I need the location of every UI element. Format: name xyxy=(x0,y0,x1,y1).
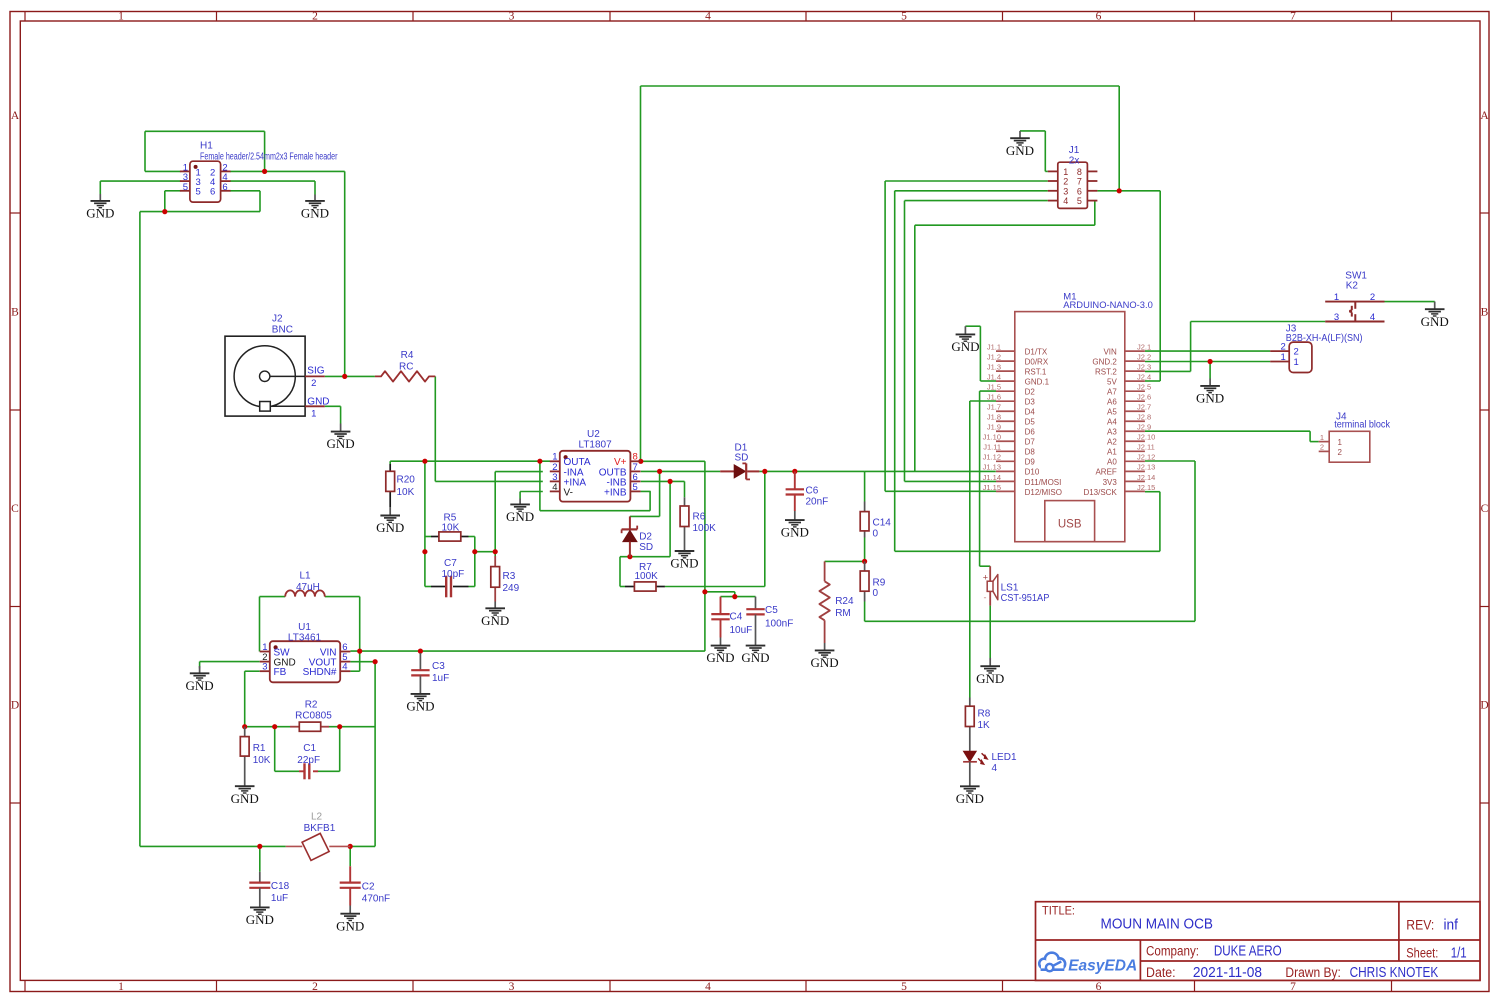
junction at 474.8,551.7 xyxy=(472,549,477,554)
svg-text:3: 3 xyxy=(1063,186,1068,196)
svg-text:C14: C14 xyxy=(873,517,892,528)
svg-text:R3: R3 xyxy=(503,571,516,582)
svg-text:AREF: AREF xyxy=(1095,468,1116,477)
ground GND C5 xyxy=(741,638,769,666)
wire L2 right to VOUT vertical xyxy=(350,662,375,847)
resistor R1 xyxy=(240,727,271,777)
capacitor C4 xyxy=(711,597,752,638)
wire J1 pin2 to D12 xyxy=(885,181,1048,491)
svg-text:5: 5 xyxy=(1077,196,1082,206)
svg-text:Drawn By:: Drawn By: xyxy=(1285,965,1341,980)
op-amp U2 LT1807 xyxy=(550,429,641,502)
svg-text:47uH: 47uH xyxy=(296,582,320,593)
resistor R6 xyxy=(680,497,716,543)
svg-text:2: 2 xyxy=(1320,443,1324,452)
svg-text:5: 5 xyxy=(633,482,638,493)
svg-text:GND: GND xyxy=(186,678,214,693)
svg-text:GND: GND xyxy=(327,436,355,451)
junction at 274.7,726.7 xyxy=(272,724,277,729)
svg-text:A2: A2 xyxy=(1107,438,1117,447)
ground GND J2 xyxy=(327,424,355,452)
svg-text:RST.2: RST.2 xyxy=(1095,368,1117,377)
svg-text:1: 1 xyxy=(118,981,124,993)
svg-text:249: 249 xyxy=(503,583,520,594)
wire SW1 pin2 to GND xyxy=(1385,301,1435,304)
wire LS1 minus wire xyxy=(989,606,991,658)
svg-text:EasyEDA: EasyEDA xyxy=(1068,958,1137,975)
junction at 264.6,171.4 xyxy=(262,169,267,174)
capacitor C5 xyxy=(746,597,793,638)
wire R4 to +INA xyxy=(435,376,543,481)
svg-text:R1: R1 xyxy=(253,743,266,754)
svg-text:LT1807: LT1807 xyxy=(579,439,613,450)
svg-text:J1.15: J1.15 xyxy=(983,483,1001,492)
svg-text:D4: D4 xyxy=(1025,408,1036,417)
svg-text:GND: GND xyxy=(406,699,434,714)
svg-text:6: 6 xyxy=(1077,186,1082,196)
svg-text:2: 2 xyxy=(312,981,318,993)
svg-text:R9: R9 xyxy=(873,578,886,589)
wire D2 anode row xyxy=(620,557,670,587)
svg-text:J1.13: J1.13 xyxy=(983,463,1001,472)
regulator U1 LT3461 xyxy=(260,622,351,683)
diode D2 xyxy=(622,516,654,556)
svg-text:A4: A4 xyxy=(1107,418,1117,427)
svg-text:RC: RC xyxy=(399,362,413,373)
svg-text:J2.10: J2.10 xyxy=(1137,433,1155,442)
svg-text:B: B xyxy=(11,307,19,319)
svg-text:ARDUINO-NANO-3.0: ARDUINO-NANO-3.0 xyxy=(1063,300,1153,311)
svg-text:VIN: VIN xyxy=(1103,348,1117,357)
capacitor C14 xyxy=(860,502,891,540)
ground GND J1 xyxy=(1006,131,1034,158)
ground GND C3 xyxy=(406,676,434,714)
wire J1 GND wire xyxy=(1020,131,1048,172)
junction at 629.9,556.7 xyxy=(627,554,632,559)
svg-text:L2: L2 xyxy=(311,812,323,823)
svg-text:7: 7 xyxy=(1290,11,1296,23)
svg-text:4: 4 xyxy=(1370,312,1375,323)
wire RST2 to SW1 xyxy=(1145,322,1325,372)
wire C14 vertical xyxy=(864,471,866,561)
wire J1 pin6 to 5V xyxy=(1097,191,1160,381)
svg-text:C6: C6 xyxy=(806,485,819,496)
svg-text:A3: A3 xyxy=(1107,428,1117,437)
junction at 640.8,461.3 xyxy=(638,459,643,464)
ground GND M1 xyxy=(951,326,979,354)
svg-text:GND: GND xyxy=(481,613,509,628)
resistor R20 xyxy=(386,464,415,507)
svg-text:+: + xyxy=(983,572,988,582)
wire R5 C7 right vertical xyxy=(469,537,496,587)
svg-text:GND: GND xyxy=(376,520,404,535)
svg-text:1: 1 xyxy=(1338,438,1343,447)
svg-text:J1.7: J1.7 xyxy=(987,403,1001,412)
junction at 420.4,651.1 xyxy=(418,649,423,654)
svg-text:A0: A0 xyxy=(1107,458,1117,467)
svg-text:4: 4 xyxy=(705,981,711,993)
junction at 259.8,846.4 xyxy=(257,844,262,849)
svg-text:GND: GND xyxy=(336,918,364,933)
svg-text:1: 1 xyxy=(118,11,124,23)
svg-text:J1.5: J1.5 xyxy=(987,383,1001,392)
svg-text:6: 6 xyxy=(222,182,227,193)
svg-text:U1: U1 xyxy=(298,622,311,633)
svg-text:4: 4 xyxy=(992,763,998,774)
svg-text:terminal block: terminal block xyxy=(1334,420,1391,431)
svg-text:2: 2 xyxy=(311,378,316,389)
svg-text:GND: GND xyxy=(670,556,698,571)
wire R9 bottom to A0 xyxy=(865,461,1195,621)
svg-text:TITLE:: TITLE: xyxy=(1042,904,1075,918)
svg-text:SD: SD xyxy=(639,542,653,553)
capacitor C2 xyxy=(340,866,390,905)
svg-text:C: C xyxy=(11,503,19,515)
svg-text:1: 1 xyxy=(1320,433,1324,442)
junction at 344.7,376.4 xyxy=(342,374,347,379)
svg-text:J1: J1 xyxy=(1069,145,1080,156)
connector H1 xyxy=(180,141,338,203)
wire H1 pin3 to GND xyxy=(100,181,180,194)
LED LED1 xyxy=(963,751,1017,774)
wire GND2 to J3 pin1 xyxy=(1145,362,1270,379)
wire R7 to D1 cathode xyxy=(665,471,765,586)
svg-text:GND: GND xyxy=(246,912,274,927)
svg-text:J1.10: J1.10 xyxy=(983,433,1001,442)
wire C2 branch xyxy=(349,846,351,866)
svg-text:1: 1 xyxy=(1281,352,1286,363)
speaker LS1 xyxy=(983,566,1050,605)
svg-text:CHRIS KNOTEK: CHRIS KNOTEK xyxy=(1350,964,1439,981)
wire U1 FB wire xyxy=(245,671,260,727)
wire -INB wire xyxy=(641,481,685,556)
resistor R9 xyxy=(860,561,886,601)
wire H1 pin5 xyxy=(165,191,181,212)
svg-text:0: 0 xyxy=(873,588,879,599)
junction at 734.8,596.6 xyxy=(732,594,737,599)
junction at 764.8,471.4 xyxy=(762,469,767,474)
svg-text:D8: D8 xyxy=(1025,448,1036,457)
svg-text:100nF: 100nF xyxy=(765,619,793,630)
wire R20 lead xyxy=(389,461,391,464)
svg-text:1uF: 1uF xyxy=(271,893,288,904)
junction at 375.1,661.7 xyxy=(373,659,378,664)
ground GND C18 xyxy=(246,889,274,927)
junction at 424.9,461.2 xyxy=(422,459,427,464)
svg-text:J2.9: J2.9 xyxy=(1137,423,1151,432)
ground GND LED1 xyxy=(956,763,984,806)
svg-text:10K: 10K xyxy=(253,755,271,766)
wire A3 to J4 xyxy=(1145,431,1319,441)
svg-text:J2: J2 xyxy=(272,313,283,324)
junction at 539.9,461.2 xyxy=(537,459,542,464)
svg-text:FB: FB xyxy=(274,667,287,678)
wire C3 branch xyxy=(419,651,421,653)
inductor L1 xyxy=(285,571,325,597)
svg-text:A7: A7 xyxy=(1107,388,1117,397)
svg-text:J1.9: J1.9 xyxy=(987,423,1001,432)
svg-text:J1.11: J1.11 xyxy=(983,443,1001,452)
wire D10 rail xyxy=(865,470,996,472)
resistor R7 xyxy=(625,562,665,591)
svg-text:1: 1 xyxy=(1063,167,1068,177)
svg-text:5V: 5V xyxy=(1107,378,1117,387)
wire C1 loop xyxy=(275,727,340,772)
wire BNC SIG to R4 xyxy=(325,375,375,377)
svg-text:R6: R6 xyxy=(693,511,706,522)
svg-text:GND: GND xyxy=(956,791,984,806)
svg-text:J2.7: J2.7 xyxy=(1137,403,1151,412)
svg-text:Female header/2.54mm2x3 Female: Female header/2.54mm2x3 Female header xyxy=(200,151,338,162)
svg-text:GND: GND xyxy=(1006,143,1034,158)
svg-text:USB: USB xyxy=(1058,519,1082,531)
wire C4 C5 jog xyxy=(705,592,756,597)
wire H1 pin1-pin2 loop xyxy=(145,131,265,171)
wire U1 GND wire xyxy=(200,662,260,669)
svg-text:C18: C18 xyxy=(271,881,290,892)
wire C18 branch xyxy=(259,846,261,871)
resistor R8 xyxy=(965,698,990,753)
wire H1 pin6 xyxy=(230,191,260,212)
svg-text:J2.11: J2.11 xyxy=(1137,443,1155,452)
svg-text:R4: R4 xyxy=(401,350,414,361)
wire left VOUT rail down xyxy=(140,212,286,847)
svg-text:J1.12: J1.12 xyxy=(983,453,1001,462)
svg-text:Sheet:: Sheet: xyxy=(1406,946,1438,961)
ground GND C4 xyxy=(706,638,734,666)
junction at 704.9,591.8 xyxy=(702,589,707,594)
svg-text:10uF: 10uF xyxy=(730,625,753,636)
svg-text:A1: A1 xyxy=(1107,448,1117,457)
svg-text:RM: RM xyxy=(835,608,851,619)
svg-text:J2.5: J2.5 xyxy=(1137,383,1151,392)
svg-text:D10: D10 xyxy=(1025,468,1040,477)
svg-text:C3: C3 xyxy=(432,661,445,672)
svg-text:J2.12: J2.12 xyxy=(1137,453,1155,462)
junction at 359.7,651.1 xyxy=(357,649,362,654)
svg-text:U2: U2 xyxy=(587,429,600,440)
svg-text:LT3461: LT3461 xyxy=(288,632,322,643)
junction at 1210.1,361.5 xyxy=(1208,359,1213,364)
connector J1 xyxy=(1048,145,1098,208)
svg-text:D: D xyxy=(1480,700,1488,712)
svg-text:SIG: SIG xyxy=(307,366,324,377)
resistor R2 xyxy=(290,699,332,731)
svg-text:R8: R8 xyxy=(978,709,991,720)
svg-text:GND: GND xyxy=(86,206,114,221)
svg-text:10pF: 10pF xyxy=(442,569,465,580)
svg-text:inf: inf xyxy=(1444,917,1459,934)
svg-text:2: 2 xyxy=(312,11,318,23)
svg-text:B: B xyxy=(1481,307,1489,319)
svg-text:R24: R24 xyxy=(835,596,854,607)
capacitor C6 xyxy=(786,471,829,511)
svg-text:J1.6: J1.6 xyxy=(987,393,1001,402)
svg-text:D0/RX: D0/RX xyxy=(1025,358,1049,367)
svg-text:SHDN#: SHDN# xyxy=(303,667,337,678)
svg-text:J2.14: J2.14 xyxy=(1137,473,1155,482)
MCU module M1 ARDUINO-NANO-3.0 xyxy=(983,292,1156,542)
wire J1 pin5 to D10 xyxy=(915,201,1095,472)
svg-text:J2.3: J2.3 xyxy=(1137,363,1151,372)
wire VIN rail xyxy=(350,650,705,652)
svg-text:D13/SCK: D13/SCK xyxy=(1083,488,1117,497)
junction at 495.2,551.7 xyxy=(493,549,498,554)
svg-text:SD: SD xyxy=(735,453,749,464)
svg-text:D1/TX: D1/TX xyxy=(1025,348,1048,357)
ground GND R1 xyxy=(231,777,259,806)
svg-text:1/1: 1/1 xyxy=(1451,945,1467,962)
svg-text:J2.4: J2.4 xyxy=(1137,373,1151,382)
svg-text:J2.13: J2.13 xyxy=(1137,463,1155,472)
wire V+ riser to top xyxy=(641,86,1120,461)
svg-text:3: 3 xyxy=(262,662,267,673)
svg-text:A5: A5 xyxy=(1107,408,1117,417)
svg-text:DUKE AERO: DUKE AERO xyxy=(1214,943,1282,960)
svg-text:LED1: LED1 xyxy=(992,752,1017,763)
svg-text:D3: D3 xyxy=(1025,398,1036,407)
junction at 670.1,481.4 xyxy=(668,479,673,484)
svg-text:D9: D9 xyxy=(1025,458,1036,467)
svg-text:H1: H1 xyxy=(200,141,213,152)
svg-text:Company:: Company: xyxy=(1146,944,1199,959)
svg-text:D2: D2 xyxy=(1025,388,1036,397)
junction at 244.7,726.7 xyxy=(242,724,247,729)
svg-text:8: 8 xyxy=(1077,167,1082,177)
svg-text:4: 4 xyxy=(705,11,711,23)
svg-text:D7: D7 xyxy=(1025,438,1036,447)
resistor R3 xyxy=(491,556,520,602)
ground GND R3 xyxy=(481,602,509,628)
junction at 350.2,846.4 xyxy=(348,844,353,849)
ground GND SW1 xyxy=(1421,302,1449,329)
capacitor C7 xyxy=(431,558,469,597)
wire OUTA to +INB route xyxy=(540,461,650,511)
svg-text:L1: L1 xyxy=(300,571,312,582)
svg-text:GND: GND xyxy=(811,655,839,670)
ground GND H1-left xyxy=(86,194,114,221)
svg-text:J1.3: J1.3 xyxy=(987,363,1001,372)
svg-text:100K: 100K xyxy=(693,523,717,534)
ground GND C6 xyxy=(781,511,809,540)
wire M1 GND1 wire xyxy=(965,326,996,381)
svg-text:GND: GND xyxy=(307,397,329,408)
svg-text:2021-11-08: 2021-11-08 xyxy=(1193,964,1262,981)
svg-text:3: 3 xyxy=(509,11,515,23)
svg-text:0: 0 xyxy=(873,529,879,540)
ground GND U1 xyxy=(186,666,214,693)
svg-text:A6: A6 xyxy=(1107,398,1117,407)
title block xyxy=(1036,902,1481,981)
svg-text:D: D xyxy=(11,700,19,712)
svg-text:6: 6 xyxy=(210,187,215,198)
svg-text:+INB: +INB xyxy=(604,487,627,498)
ground GND J3 xyxy=(1196,379,1224,406)
svg-text:C4: C4 xyxy=(730,612,743,623)
EasyEDA logo xyxy=(1039,953,1137,975)
wire R24 link xyxy=(825,560,865,562)
junction at 339.7,726.7 xyxy=(337,724,342,729)
junction at 864.6,561.4 xyxy=(862,559,867,564)
capacitor C18 xyxy=(249,872,289,904)
svg-text:LS1: LS1 xyxy=(1001,583,1019,594)
svg-text:C5: C5 xyxy=(765,605,778,616)
svg-text:J1.1: J1.1 xyxy=(987,343,1001,352)
resistor R24 xyxy=(819,561,854,643)
svg-text:2x: 2x xyxy=(1069,156,1080,167)
svg-text:C7: C7 xyxy=(444,558,457,569)
svg-text:J1.2: J1.2 xyxy=(987,353,1001,362)
svg-text:B2B-XH-A(LF)(SN): B2B-XH-A(LF)(SN) xyxy=(1286,333,1363,344)
svg-text:3: 3 xyxy=(1334,312,1339,323)
svg-text:3: 3 xyxy=(509,981,515,993)
resistor R4 xyxy=(375,350,435,382)
svg-text:J2.6: J2.6 xyxy=(1137,393,1151,402)
svg-text:5: 5 xyxy=(183,182,188,193)
junction at 659.6,471.4 xyxy=(657,469,662,474)
svg-text:BKFB1: BKFB1 xyxy=(304,823,336,834)
wire OUTB rail xyxy=(641,470,865,472)
svg-text:GND: GND xyxy=(706,650,734,665)
svg-text:D2: D2 xyxy=(639,532,652,543)
svg-text:4: 4 xyxy=(342,662,347,673)
svg-text:GND: GND xyxy=(781,525,809,540)
wire -INA feedback xyxy=(495,472,543,556)
capacitor C1 xyxy=(297,743,320,780)
svg-text:5: 5 xyxy=(196,187,201,198)
svg-text:GND: GND xyxy=(951,339,979,354)
svg-text:2: 2 xyxy=(1370,292,1375,303)
svg-text:A: A xyxy=(11,110,20,122)
wire BNC GND xyxy=(325,406,341,423)
junction at 424.9,551.7 xyxy=(422,549,427,554)
svg-text:BNC: BNC xyxy=(272,325,293,336)
svg-text:5: 5 xyxy=(901,11,907,23)
svg-text:J1.4: J1.4 xyxy=(987,373,1001,382)
svg-text:MOUN MAIN OCB: MOUN MAIN OCB xyxy=(1101,916,1214,933)
switch SW1 K2 xyxy=(1325,271,1384,323)
svg-text:D11/MOSI: D11/MOSI xyxy=(1025,478,1062,487)
resistor R5 xyxy=(431,513,469,541)
svg-text:10K: 10K xyxy=(397,487,415,498)
wire VIN to J3 pin2 xyxy=(1145,350,1270,352)
svg-text:3V3: 3V3 xyxy=(1103,478,1118,487)
svg-text:GND: GND xyxy=(741,650,769,665)
svg-text:100K: 100K xyxy=(635,571,659,582)
svg-text:GND: GND xyxy=(1196,391,1224,406)
wire V- wire xyxy=(520,492,543,499)
svg-text:J2.8: J2.8 xyxy=(1137,413,1151,422)
svg-text:C: C xyxy=(1481,503,1489,515)
wire H1 pin4 to GND xyxy=(230,181,315,194)
svg-text:GND: GND xyxy=(301,206,329,221)
svg-text:J1.14: J1.14 xyxy=(983,473,1001,482)
svg-text:20nF: 20nF xyxy=(806,497,829,508)
svg-text:6: 6 xyxy=(1096,981,1102,993)
svg-text:A: A xyxy=(1480,110,1489,122)
wire J1 pin3 to D13 xyxy=(895,191,1160,552)
wire D2 cathode to OUTB xyxy=(630,471,660,516)
svg-text:K2: K2 xyxy=(1346,280,1359,291)
wire VOUT wire xyxy=(350,661,375,663)
svg-text:D12/MISO: D12/MISO xyxy=(1025,488,1062,497)
svg-text:GND.2: GND.2 xyxy=(1092,358,1117,367)
svg-text:D5: D5 xyxy=(1025,418,1036,427)
wire LS1 plus wire xyxy=(980,391,996,566)
ferrite bead L2 xyxy=(286,812,350,861)
svg-text:1uF: 1uF xyxy=(432,673,449,684)
ground GND LS1 xyxy=(976,658,1004,686)
